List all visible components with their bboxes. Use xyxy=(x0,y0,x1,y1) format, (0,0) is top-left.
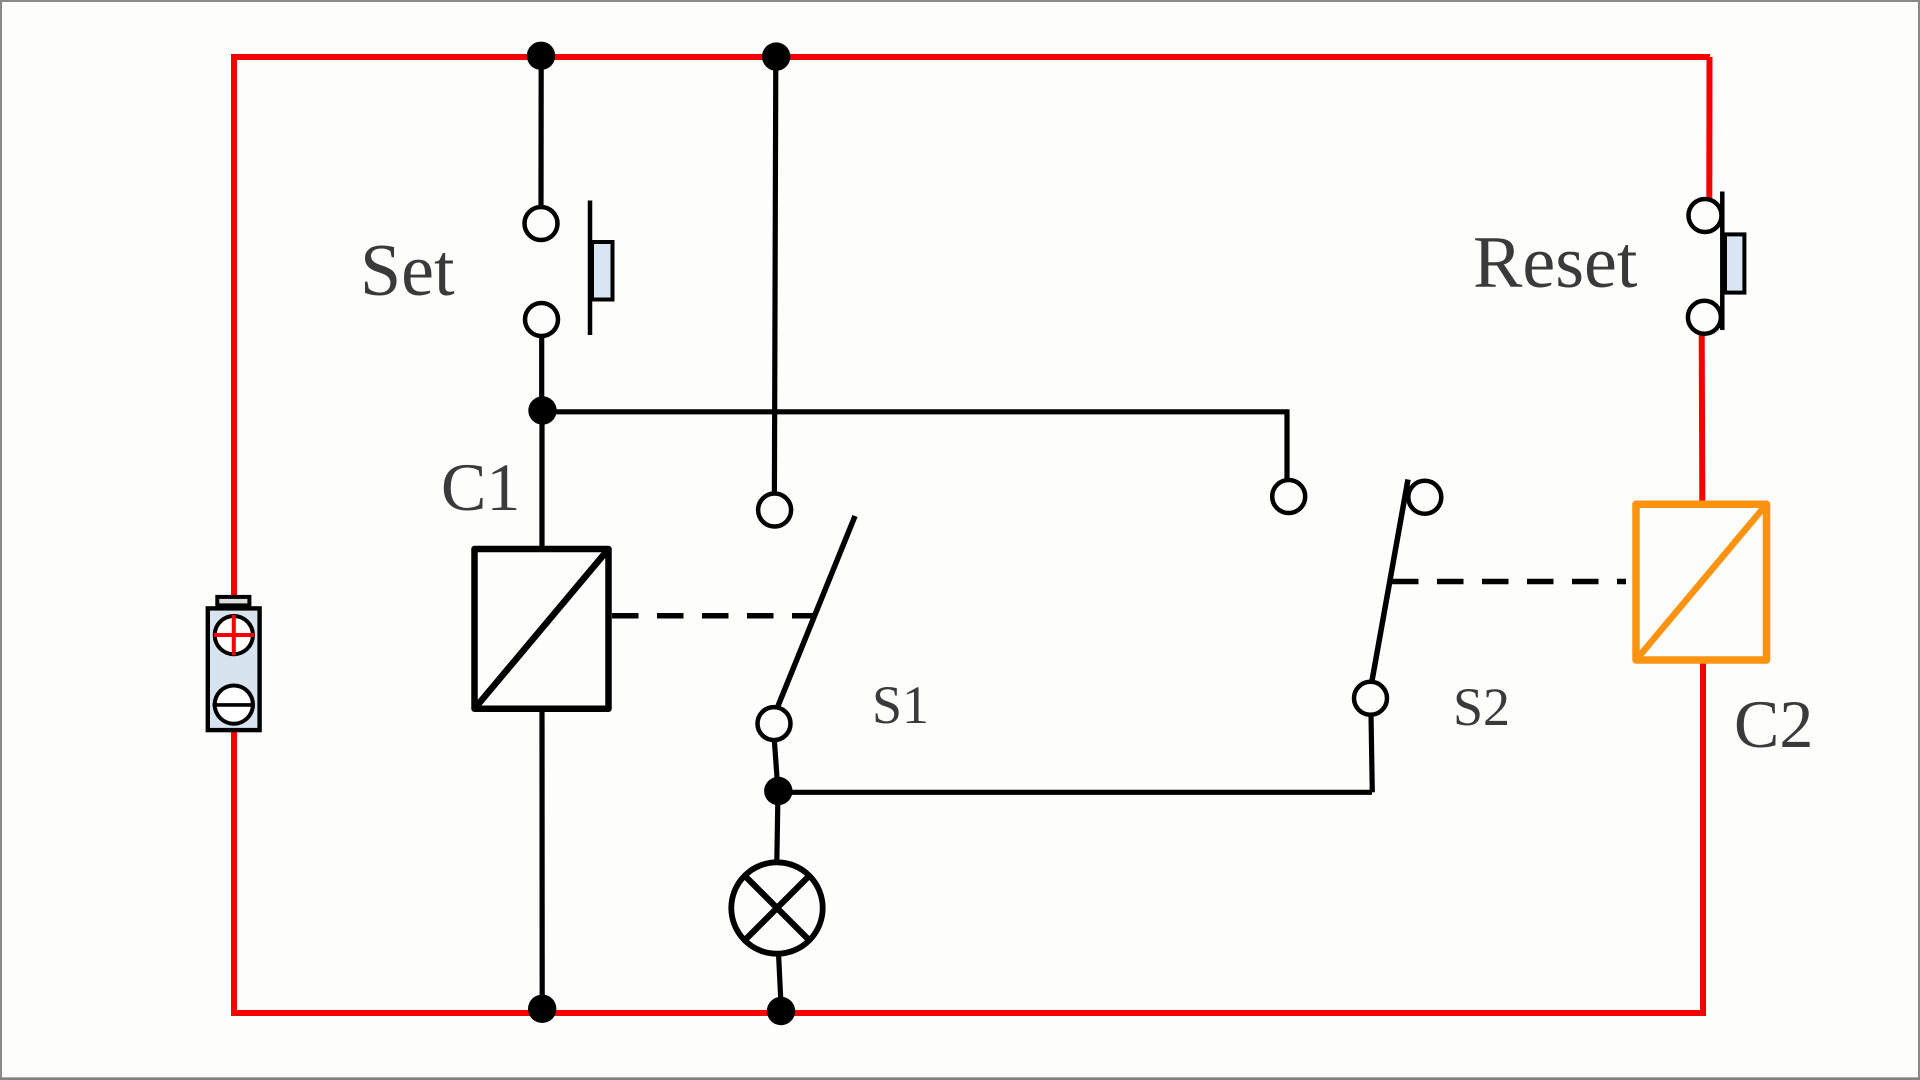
wire mid horizontal row xyxy=(542,412,1287,480)
wire lamp row horizontal xyxy=(778,790,1372,795)
relay coil C2 xyxy=(1636,504,1767,660)
pushbutton Reset xyxy=(1688,192,1745,334)
battery minus terminal xyxy=(215,686,253,724)
mechanical link C1-S1 (dashed) xyxy=(612,613,814,619)
relay coil C1 xyxy=(475,549,609,709)
node C1 bottom junction xyxy=(528,995,556,1023)
pushbutton Set xyxy=(525,201,613,337)
wire red right segment mid (Reset to C2) xyxy=(1699,332,1706,501)
S1 lower contact xyxy=(758,707,791,740)
wire red loop: top, left, bottom xyxy=(234,57,1710,1013)
svg-text:Reset: Reset xyxy=(1473,222,1638,304)
lamp L1 xyxy=(731,862,822,953)
wire S2 bottom lead xyxy=(1371,714,1372,792)
battery B1 xyxy=(208,597,260,730)
wire red right segment bottom (C2 to bottom rail) xyxy=(1700,663,1706,1016)
svg-text:Set: Set xyxy=(360,230,455,312)
wire red right segment top (corner to Reset) xyxy=(1706,57,1712,198)
node mid-left junction xyxy=(528,396,556,424)
Set actuator bar xyxy=(588,201,593,336)
wire Set branch top xyxy=(538,57,543,207)
battery plus terminal xyxy=(215,616,253,654)
Reset button cap xyxy=(1725,234,1744,292)
S1 upper contact xyxy=(758,494,791,527)
battery body xyxy=(208,608,260,730)
wire C1 top lead xyxy=(539,411,544,549)
wire S1 to node xyxy=(774,740,778,791)
switch S1 blade xyxy=(778,516,855,706)
node lamp junction xyxy=(764,777,792,805)
wire Set branch bottom xyxy=(539,336,544,412)
node top-center junction xyxy=(762,42,790,70)
wire lamp top lead xyxy=(777,791,778,863)
mechanical link S2-C2 (dashed) xyxy=(1392,579,1626,585)
svg-text:S1: S1 xyxy=(872,675,929,735)
svg-text:C1: C1 xyxy=(441,449,520,525)
S2 feed contact xyxy=(1272,480,1305,513)
node top-left junction xyxy=(527,42,555,70)
wire center vertical xyxy=(774,57,775,494)
svg-text:C2: C2 xyxy=(1734,686,1813,762)
battery cap xyxy=(217,597,249,606)
S2 lower contact xyxy=(1354,682,1387,715)
Set button cap xyxy=(592,242,613,300)
Reset actuator bar xyxy=(1720,192,1725,331)
svg-text:S2: S2 xyxy=(1453,677,1510,737)
wire lamp bottom lead xyxy=(779,953,782,1011)
switch S2 blade xyxy=(1372,480,1408,684)
wire C1 bottom lead xyxy=(539,707,544,1008)
node lamp bottom junction xyxy=(767,997,795,1025)
S2 upper contact xyxy=(1408,481,1441,514)
